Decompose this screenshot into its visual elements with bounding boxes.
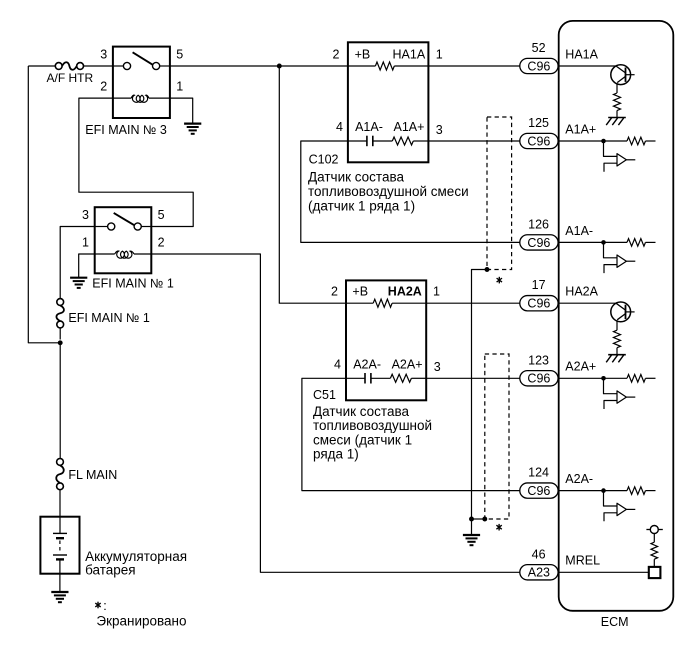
note * shield 2 [498,524,500,531]
svg-text:126: 126 [528,217,549,231]
ground relay No.3 coil [184,122,201,124]
wire into transistor base [559,302,616,304]
wire A2A+ sensor2 pin3 to ECM [426,377,520,379]
svg-text:C96: C96 [527,236,550,250]
svg-text:C102: C102 [309,153,339,167]
connector C96 pin 52 [520,58,558,73]
relay EFI MAIN No.1 coil [95,253,115,255]
sensor C102 box [348,42,429,162]
ground relay No.1 coil [70,277,87,279]
wire A2A- sensor2 pin4 to ECM [302,378,520,490]
svg-text:4: 4 [334,357,341,371]
svg-text:2: 2 [100,79,107,93]
op-amp comparator [617,391,626,403]
wire A1A- sensor1 pin4 to ECM [301,141,520,242]
node junction +B feed [277,64,282,69]
resistor MREL pull-up [651,542,658,559]
MREL input square pad [649,567,661,578]
shield of A2A wires (dashed) [485,354,509,519]
svg-text::: : [103,599,106,613]
wire sense input [559,377,627,379]
wire junction to comparator input [604,378,617,393]
note * shield 1 [498,277,500,284]
wire square to resistor [653,559,655,567]
relay EFI MAIN No.3 switch contacts [123,62,130,69]
svg-text:A/F HTR: A/F HTR [47,71,94,85]
connector C96 pin 125 [520,133,558,148]
svg-text:EFI MAIN № 1: EFI MAIN № 1 [68,311,150,325]
connector A23 pin 46 [520,565,558,580]
wire comparator output [626,508,635,510]
svg-text:2: 2 [158,235,165,249]
svg-text:C96: C96 [527,372,550,386]
relay EFI MAIN No.1 box [95,207,152,273]
wire fuse EFI MAIN No.1 to junction [59,328,61,340]
svg-text:Датчик состава: Датчик состава [308,170,404,185]
wire battery negative to ground [59,559,61,591]
svg-text:FL MAIN: FL MAIN [68,468,117,482]
sensor C51 box [346,280,426,400]
svg-text:A2A-: A2A- [565,472,593,486]
relay EFI MAIN No.1 switch lever [114,213,134,225]
svg-text:HA1A: HA1A [393,47,426,61]
svg-text:3: 3 [82,208,89,222]
svg-text:A1A-: A1A- [565,224,593,238]
svg-text:A1A-: A1A- [355,120,383,134]
connector C96 pin 123 [520,371,558,386]
sensor C102 sense element capacitor [348,140,367,142]
wire transistor emitter [616,320,618,330]
svg-text:A1A+: A1A+ [394,120,425,134]
wire HA1A sensor1 pin1 to ECM [428,65,519,67]
wire resistor to supply [653,534,655,543]
svg-text:C96: C96 [527,134,550,148]
wire to A/F HTR fuse [28,65,55,67]
relay EFI MAIN No.3 switch lever [133,52,153,64]
wire fuse FL MAIN to battery [59,490,61,534]
svg-text:A1A+: A1A+ [565,122,596,136]
fuse EFI MAIN № 1 [57,299,64,306]
node sense input junction [601,139,606,144]
node shield 1 drain [485,267,490,272]
wire relay No.1 pin 2 to ECM MREL [151,254,520,572]
wire comparator output [626,396,635,398]
relay EFI MAIN No.1 switch contacts [108,223,115,230]
connector C96 pin 126 [520,235,558,250]
wire comparator reference input [604,163,617,172]
ground battery [51,591,68,593]
wire drain to ground [471,519,473,535]
svg-text:1: 1 [433,285,440,299]
wire MREL input [559,571,649,573]
svg-text:46: 46 [532,547,546,561]
op-amp comparator [617,154,626,166]
relay EFI MAIN No.3 box [113,47,170,118]
transistor (A/F heater driver) [611,65,631,85]
svg-text:4: 4 [336,120,343,134]
svg-text:A2A+: A2A+ [392,357,423,371]
svg-text:HA1A: HA1A [565,47,598,61]
wire shield 2 drain to ground [472,518,485,520]
svg-text:EFI MAIN № 3: EFI MAIN № 3 [85,123,167,137]
sensor C51 sense element capacitor [346,377,365,379]
svg-text:124: 124 [528,466,549,480]
shield of A1A wires (dashed) [487,117,512,270]
wire resistor stub [646,490,656,492]
node shield drain ground junction [469,517,474,522]
svg-text:ряда 1): ряда 1) [313,447,359,462]
wire into transistor base [559,65,616,67]
wire resistor stub [646,140,656,142]
svg-text:(датчик 1 ряда 1): (датчик 1 ряда 1) [308,198,415,213]
resistor sense input [627,487,645,495]
ground (chassis) transistor emitter [608,354,626,356]
wire comparator reference input [604,265,617,274]
wire battery positive feed (left vertical) [28,66,60,343]
connector C96 pin 124 [520,483,558,498]
wire A/F HTR fuse to relay EFI MAIN No.3 pin 3 [84,65,113,67]
wire relay No.3 pin 2 to relay No.1 pin 5 [79,98,193,226]
node sense input junction [601,376,606,381]
svg-text:A2A+: A2A+ [565,360,596,374]
wire junction to comparator input [604,242,617,257]
svg-text:17: 17 [532,278,546,292]
svg-text:1: 1 [176,79,183,93]
sensor C102 heater resistor (+B to HA1A) [348,65,376,67]
wire comparator output [626,159,635,161]
svg-text:A23: A23 [528,566,550,580]
ground (chassis) transistor emitter [608,117,626,119]
sensor C51 sense element resistor [371,377,391,379]
note *: Экранировано [97,602,99,609]
svg-text:3: 3 [100,47,107,61]
fuse FL MAIN [57,459,64,466]
resistor emitter [614,93,621,111]
svg-text:5: 5 [158,208,165,222]
resistor emitter [614,330,621,348]
svg-text:C96: C96 [527,297,550,311]
svg-text:топливовоздушной: топливовоздушной [313,418,432,433]
resistor sense input [627,239,645,247]
node sense input junction [601,240,606,245]
wire comparator output [626,260,635,262]
svg-text:5: 5 [176,47,183,61]
sensor C51 heater resistor (+B to HA2A) [346,302,373,304]
wire sense input [559,490,627,492]
svg-text:Экранировано: Экранировано [96,613,186,628]
svg-text:HA2A: HA2A [388,285,422,299]
wire relay No.3 pin 1 to ground [170,98,193,123]
svg-text:EFI MAIN № 1: EFI MAIN № 1 [92,276,174,290]
wire comparator reference input [604,401,617,410]
sensor C102 sense element resistor [373,140,393,142]
wire junction to comparator input [604,491,617,506]
wire sense input [559,140,627,142]
svg-text:батарея: батарея [85,563,136,578]
wire resistor to ground [616,111,618,118]
svg-text:2: 2 [331,285,338,299]
node junction battery feed / EFI MAIN fuse [58,340,63,345]
svg-text:HA2A: HA2A [565,285,598,299]
wire resistor stub [646,377,656,379]
svg-text:смеси (датчик 1: смеси (датчик 1 [313,432,412,447]
connector C96 pin 17 [520,296,558,311]
power supply B+ symbol [650,526,658,534]
wire A1A+ sensor1 pin3 to ECM [428,140,519,142]
svg-text:+B: +B [352,285,368,299]
svg-text:топливовоздушной смеси: топливовоздушной смеси [308,184,469,199]
transistor (A/F heater driver) [611,302,631,322]
svg-text:ECM: ECM [601,615,629,629]
wire shield 1 drain [472,270,488,520]
svg-text:C51: C51 [313,388,336,402]
wire comparator reference input [604,513,617,522]
battery cells [53,532,67,534]
relay EFI MAIN No.3 coil [113,97,131,99]
svg-text:MREL: MREL [565,554,600,568]
ground shield drain [463,534,480,536]
svg-text:C96: C96 [527,59,550,73]
svg-text:+B: +B [355,47,371,61]
svg-text:1: 1 [436,47,443,61]
wire +B feed to sensor 2 [279,66,346,303]
node shield 2 drain [482,517,487,522]
wire HA2A sensor2 pin1 to ECM [426,302,520,304]
wire junction to fuse FL MAIN [59,343,61,459]
svg-text:125: 125 [528,116,549,130]
wire relay No.1 pin 3 to fuse EFI MAIN No.1 [60,227,94,299]
svg-text:1: 1 [82,235,89,249]
svg-text:3: 3 [436,123,443,137]
wire relay No.3 pin 5 to sensor 1 +B [170,65,348,67]
svg-text:C96: C96 [527,484,550,498]
svg-text:3: 3 [434,360,441,374]
op-amp comparator [617,255,626,267]
node sense input junction [601,488,606,493]
op-amp comparator [617,503,626,515]
svg-text:52: 52 [532,41,546,55]
wire resistor stub [646,241,656,243]
svg-text:Датчик состава: Датчик состава [313,404,409,419]
ECM box [559,21,674,611]
wire transistor emitter [616,83,618,93]
svg-text:Аккумуляторная: Аккумуляторная [85,549,187,564]
wire junction to comparator input [604,141,617,156]
resistor sense input [627,137,645,145]
fuse A/F HTR [55,63,62,70]
battery box [40,517,79,574]
wire relay No.1 coil to ground [79,254,95,278]
svg-text:A2A-: A2A- [353,357,381,371]
wire resistor to ground [616,348,618,355]
resistor sense input [627,375,645,383]
wire sense input [559,241,627,243]
svg-text:2: 2 [332,47,339,61]
svg-text:123: 123 [528,353,549,367]
